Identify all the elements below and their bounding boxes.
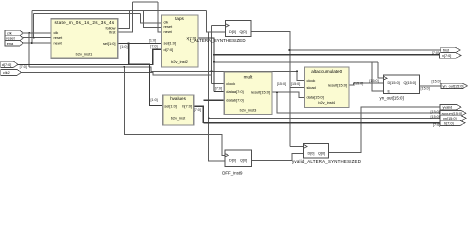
block U1 state machine b2v_inst1 — [51, 19, 118, 58]
svg-text:Q[0]: Q[0] — [318, 151, 325, 155]
output port h[7:0] — [440, 120, 465, 125]
wire mult result to accumulator data — [272, 92, 305, 97]
DFF U8 yvalid_ALTERA_SYNTHESIZED — [292, 144, 361, 165]
svg-text:ena: ena — [7, 42, 14, 46]
wire reset horizontal from port to state machine — [22, 37, 52, 39]
svg-text:altaccumulate0: altaccumulate0 — [311, 69, 342, 74]
svg-text:b2v_inst: b2v_inst — [171, 116, 186, 121]
svg-text:first: first — [443, 49, 450, 53]
svg-text:datab[7:0]: datab[7:0] — [226, 98, 243, 103]
svg-text:[15:0]: [15:0] — [431, 110, 440, 114]
wire drop to yvalid DFF clock — [290, 145, 304, 147]
svg-text:[15:0]: [15:0] — [291, 82, 300, 86]
svg-text:newt: newt — [164, 29, 173, 34]
bus x[7:0] from taps — [198, 38, 214, 92]
svg-text:[7:0]: [7:0] — [20, 65, 27, 69]
wire step down into taps newt — [158, 2, 162, 32]
wire clk riser to DFF clock and down to mult clock — [211, 26, 213, 84]
svg-text:taps: taps — [175, 16, 184, 21]
svg-text:[1:0]: [1:0] — [120, 45, 127, 49]
svg-text:b2v_inst4: b2v_inst4 — [318, 100, 335, 105]
svg-text:[7:0]: [7:0] — [150, 45, 157, 49]
bus h[7:0] run to lower port — [203, 122, 440, 124]
svg-text:x[7:0]: x[7:0] — [442, 54, 451, 58]
svg-text:D[15:0]: D[15:0] — [388, 81, 400, 85]
bus d[7:0] from port to taps — [18, 49, 162, 64]
junction dots — [28, 32, 297, 119]
input port clk — [5, 30, 23, 36]
DFF U7 inst9 — [222, 150, 251, 175]
svg-text:sel[1:0]: sel[1:0] — [164, 41, 177, 46]
wire clk horizontal from port to state machine — [22, 32, 52, 34]
wire first output port run — [290, 49, 441, 51]
wire DFF inst9 Q to yvalid DFF D — [251, 154, 303, 161]
block U4 mult b2v_inst3 — [224, 72, 272, 115]
svg-text:[7:0]: [7:0] — [194, 108, 201, 112]
input port ena — [5, 40, 23, 46]
svg-text:[15:0]: [15:0] — [432, 79, 441, 83]
input port d[7:0] — [1, 61, 19, 67]
output port accum[15:0] — [440, 110, 466, 116]
svg-text:mult: mult — [244, 74, 253, 79]
svg-text:D[0]: D[0] — [229, 30, 236, 34]
wire follow output up to top run — [118, 11, 130, 29]
svg-text:[7:0]: [7:0] — [433, 123, 440, 127]
wire net to DFF inst9 D — [209, 32, 225, 161]
svg-text:[15:0]: [15:0] — [354, 82, 363, 86]
svg-text:clock: clock — [307, 78, 316, 83]
svg-text:sel[1:0]: sel[1:0] — [103, 41, 116, 46]
svg-text:b2v_inst3: b2v_inst3 — [240, 108, 257, 113]
svg-text:Q[15:0]: Q[15:0] — [404, 81, 416, 85]
bus sel[1:0] from state machine to taps — [118, 43, 162, 45]
wire mult result branch to port — [277, 92, 440, 113]
wire DFF Q to first port riser — [251, 32, 290, 147]
svg-text:state_m_0s_1s_2s_3s_4s: state_m_0s_1s_2s_3s_4s — [55, 20, 115, 25]
svg-text:t_ALTERA_SYNTHESIZED: t_ALTERA_SYNTHESIZED — [190, 38, 246, 43]
svg-text:accum[15:0]: accum[15:0] — [442, 112, 463, 116]
svg-text:newt: newt — [54, 40, 63, 45]
bus x to mult dataa stub — [214, 91, 224, 93]
svg-text:[7:0]: [7:0] — [215, 87, 222, 91]
wire mult clock stub — [212, 83, 225, 85]
svg-text:reset: reset — [6, 37, 15, 41]
svg-text:clock: clock — [226, 81, 235, 86]
input port clk2 — [1, 70, 22, 76]
block U2 taps b2v_inst2 — [162, 15, 199, 67]
svg-text:d[7:0]: d[7:0] — [164, 47, 174, 52]
wire accumulator result to register D — [349, 83, 384, 85]
wire clk2 run — [22, 72, 212, 75]
svg-text:hvalues: hvalues — [170, 96, 187, 101]
wire accumulator clock branch — [297, 71, 305, 80]
DFF U6 (t_ALTERA_SYNTHESIZED) — [190, 21, 251, 43]
wire top run 2 (y=13.2) — [34, 12, 141, 14]
svg-text:h[7:0]: h[7:0] — [444, 121, 454, 125]
bus sel[1:0] branch down to hvalues — [129, 44, 163, 106]
wire accumulator sload stub — [290, 87, 305, 89]
bus h[7:0] from hvalues to mult datab — [194, 106, 204, 123]
wire enable net run — [214, 61, 378, 63]
input port reset — [5, 35, 23, 41]
bus width labels — [20, 39, 441, 127]
register U9 yn_out with enable — [380, 75, 420, 101]
output port first — [441, 47, 460, 52]
wire top run 1 (y=10) — [32, 10, 207, 12]
wire register clock branch — [378, 62, 384, 78]
svg-text:[7:0]: [7:0] — [432, 51, 439, 55]
svg-text:yn_out[15:0]: yn_out[15:0] — [380, 96, 404, 101]
wire register enable drop — [372, 62, 383, 91]
svg-text:result[15:0]: result[15:0] — [328, 82, 347, 87]
output port x[7:0] — [440, 53, 462, 58]
svg-text:Q[0]: Q[0] — [240, 159, 247, 163]
wire x out to lower port run — [209, 117, 440, 119]
bus x[7:0] run to x port — [214, 54, 441, 56]
bus h to mult datab stub — [203, 99, 224, 101]
svg-text:result[15:0]: result[15:0] — [251, 90, 270, 95]
block U3 hvalues b2v_inst — [163, 95, 194, 125]
svg-text:sload: sload — [307, 85, 316, 90]
wire yvalid DFF Q to yvalid port — [329, 107, 440, 152]
wire ena horizontal from port to state machine — [22, 42, 52, 44]
svg-text:DFF_inst9: DFF_inst9 — [222, 171, 243, 176]
svg-text:yn_out[15:0]: yn_out[15:0] — [443, 84, 464, 88]
wire first output up to top run — [118, 2, 133, 32]
svg-text:first: first — [109, 30, 116, 35]
svg-text:b2v_inst2: b2v_inst2 — [171, 59, 188, 64]
wire clk distribution run — [29, 67, 297, 72]
wire ena riser up to top run — [31, 11, 33, 44]
svg-text:data[15:0]: data[15:0] — [307, 95, 324, 100]
wire DFF clock stub — [212, 25, 226, 27]
svg-text:D[0]: D[0] — [229, 159, 236, 163]
svg-text:b2v_inst1: b2v_inst1 — [76, 51, 93, 56]
svg-text:[1:0]: [1:0] — [149, 39, 156, 43]
block U5 altaccumulate0 b2v_inst4 — [305, 67, 350, 108]
svg-text:D[0]: D[0] — [308, 151, 315, 155]
svg-text:reset: reset — [54, 35, 64, 40]
wire drop to DFF D input — [207, 11, 226, 33]
svg-text:yvalid_ALTERA_SYNTHESIZED: yvalid_ALTERA_SYNTHESIZED — [292, 159, 361, 164]
svg-text:d[7:0]: d[7:0] — [2, 63, 12, 67]
wire clk riser down to clk distribution run — [28, 33, 30, 67]
wire step down into taps clk — [141, 13, 162, 23]
wire reset riser up to top run — [33, 13, 35, 37]
wire first top run — [133, 1, 159, 3]
svg-text:h[7:0]: h[7:0] — [182, 103, 192, 108]
svg-text:yvalid: yvalid — [443, 106, 453, 110]
svg-text:[15:0]: [15:0] — [277, 82, 286, 86]
wire register Q to yn_out port — [419, 85, 441, 87]
svg-text:[15:0]: [15:0] — [421, 87, 430, 91]
svg-text:sel[1:0]: sel[1:0] — [164, 103, 177, 108]
wire clk branch down to DFF inst9 clock — [124, 67, 224, 156]
wire step down into taps reset — [144, 11, 162, 28]
svg-text:[15:0]: [15:0] — [369, 79, 378, 83]
svg-text:[15:0]: [15:0] — [431, 115, 440, 119]
output port yn[15:0] — [440, 116, 466, 121]
svg-text:[1:0]: [1:0] — [151, 98, 158, 102]
svg-text:Q[0]: Q[0] — [240, 30, 247, 34]
svg-text:clk2: clk2 — [3, 71, 10, 75]
output port yvalid — [440, 104, 461, 109]
svg-text:dataa[7:0]: dataa[7:0] — [226, 89, 243, 94]
output port yn_out[15:0] — [441, 83, 468, 88]
